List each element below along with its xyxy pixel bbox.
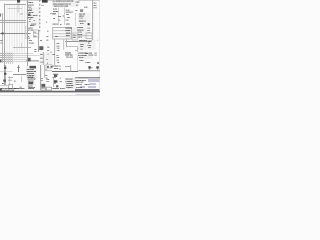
wire v x54.6 [51, 39, 59, 65]
svg-text:1.25B: 1.25B [88, 28, 91, 29]
svg-text:GOVERNOR: GOVERNOR [27, 73, 34, 74]
svg-text:LAMP RY: LAMP RY [28, 27, 33, 28]
svg-text:1.25R: 1.25R [57, 48, 60, 49]
svg-text:GLOW: GLOW [89, 52, 93, 53]
svg-text:J/C 01: J/C 01 [29, 40, 32, 41]
svg-text:B BR C R1: B BR C R1 [28, 80, 34, 81]
svg-text:No TB216-E1: No TB216-E1 [76, 87, 82, 88]
table grid v x17 [13, 3, 21, 63]
svg-text:0.85L: 0.85L [88, 30, 91, 31]
svg-text:0.5B: 0.5B [45, 75, 47, 76]
harness bus wire 3 [0, 54, 27, 62]
wire v x63.6 [60, 39, 68, 50]
svg-text:E07: E07 [88, 43, 90, 44]
relay K0 label block top-left [17, 0, 20, 3]
svg-text:J6: J6 [60, 77, 61, 78]
svg-text:STARTER: STARTER [77, 27, 83, 28]
wire code labels x52 low [51, 52, 60, 64]
node tick left y43 [0, 39, 2, 47]
svg-text:0.5RY: 0.5RY [88, 47, 91, 48]
border frame top [0, 0, 100, 5]
svg-text:1 2 3 4: 1 2 3 4 [80, 18, 83, 19]
feeder wire dark x39.8 [36, 0, 44, 31]
title block top edge [75, 74, 100, 82]
svg-text:BATTERY 12V: BATTERY 12V [53, 66, 61, 67]
wire h y41.6 right [65, 38, 91, 46]
border frame right edge [97, 0, 103, 93]
harness bus wire 4 [0, 56, 27, 64]
svg-text:0.85R: 0.85R [57, 57, 60, 58]
svg-text:J2: J2 [48, 54, 49, 55]
wash parts list [65, 78, 76, 89]
svg-text:0.85GW: 0.85GW [80, 44, 84, 45]
svg-text:0.5R: 0.5R [60, 81, 62, 82]
fuse box labels [66, 28, 76, 38]
battery labels [53, 66, 61, 75]
starter labels [77, 27, 83, 38]
wire h y71.6 left faint [0, 68, 13, 76]
svg-text:2.0R E12: 2.0R E12 [86, 62, 91, 63]
wire h y77.8 right [78, 74, 100, 82]
transistor blob Q1 [39, 46, 43, 50]
wire v x25.8 [22, 26, 30, 39]
svg-text:No.2: No.2 [95, 55, 97, 56]
svg-text:HORN SW: HORN SW [53, 23, 59, 24]
svg-text:0.85W: 0.85W [58, 16, 61, 17]
svg-text:1.25R: 1.25R [53, 14, 56, 15]
harness drop wire c [7, 53, 15, 65]
svg-text:R-12: R-12 [29, 19, 31, 20]
svg-text:AC SW 2P: AC SW 2P [28, 76, 33, 77]
svg-text:30 50 15: 30 50 15 [78, 34, 82, 35]
bullet drop A [86, 69, 94, 71]
wire segment [53, 32, 72, 40]
svg-text:H/L LO: H/L LO [80, 23, 84, 24]
svg-text:3 FUSE BOX: 3 FUSE BOX [66, 85, 73, 86]
terminal ladder wire v x4.5 [1, 4, 9, 87]
svg-text:T3: T3 [34, 20, 35, 21]
svg-text:0.5LW: 0.5LW [40, 58, 43, 59]
svg-text:B4: B4 [28, 36, 29, 37]
wire h y70.6 mid2 [45, 67, 53, 75]
svg-text:0.85B: 0.85B [57, 43, 60, 44]
wire segment [27, 14, 29, 22]
title block cell blue row3b [88, 86, 96, 88]
svg-text:0.5G: 0.5G [57, 62, 59, 63]
svg-text:0.5B: 0.5B [53, 18, 55, 19]
svg-text:GND E03: GND E03 [53, 11, 58, 12]
svg-text:ALT IG: ALT IG [78, 36, 81, 37]
svg-text:0.85R: 0.85R [67, 17, 70, 18]
svg-text:BATT RY: BATT RY [29, 12, 34, 13]
wash center column [27, 8, 41, 27]
node dot x51 y66.5 [51, 66, 53, 68]
svg-text:L6: L6 [29, 21, 30, 22]
gray band below title block [75, 94, 100, 96]
svg-text:0.85G: 0.85G [66, 14, 69, 15]
node dot x47.5 y66.5 [47, 66, 49, 68]
labels E05 E06 [40, 40, 49, 52]
wash mid cluster [40, 53, 53, 66]
node blob x28 y59 [28, 58, 31, 62]
wire segment [18, 64, 20, 72]
svg-text:AM 30: AM 30 [28, 6, 31, 7]
connector box CN4 [86, 33, 92, 39]
svg-text:E08: E08 [54, 81, 56, 82]
svg-text:E13: E13 [2, 83, 4, 84]
wire code labels mid [53, 14, 61, 25]
svg-text:IG2 ST: IG2 ST [29, 8, 32, 9]
wire v x64.5 top [61, 8, 69, 26]
svg-text:B=BLACK W=WHITE R=RED: B=BLACK W=WHITE R=RED [1, 90, 14, 91]
node dot right y62.5 [97, 62, 99, 64]
svg-text:GY: GY [41, 80, 43, 81]
small box x8.5-12.5 y84.5-88.5 [9, 85, 13, 89]
wire h y60.6 mid [26, 57, 39, 65]
svg-text:B1 ST 5: B1 ST 5 [53, 9, 57, 10]
wire segment [27, 10, 29, 18]
svg-text:E06: E06 [47, 40, 49, 41]
tick y69.8 [45, 66, 47, 74]
svg-text:No.1: No.1 [95, 52, 97, 53]
node junction dot y33.5 [2, 33, 4, 35]
svg-text:CN-1: CN-1 [94, 2, 97, 3]
svg-text:G 05: G 05 [20, 87, 22, 88]
svg-text:SAFETY RELAY: SAFETY RELAY [79, 40, 87, 41]
title block cell blue row2a [89, 83, 96, 85]
svg-text:0.5W: 0.5W [57, 60, 59, 61]
labels x46.5 bottom [47, 79, 50, 82]
wire h y47.5 [13, 44, 31, 52]
svg-text:0.85B 3: 0.85B 3 [80, 60, 84, 61]
node blob x55 y75.5 [54, 75, 57, 77]
connector C3 labels [29, 40, 37, 52]
table grid v x7 [3, 4, 11, 63]
node junction J4 [3, 80, 6, 82]
wire segment [27, 2, 29, 10]
alternator labels [78, 52, 97, 63]
safety relay labels [79, 40, 98, 50]
svg-text:B IG L E IC REG: B IG L E IC REG [78, 55, 86, 56]
node blob x30 y83 [28, 82, 33, 85]
svg-text:DATE 6.12: DATE 6.12 [85, 84, 90, 85]
governor title bar [30, 66, 37, 69]
svg-text:0.5W: 0.5W [28, 38, 30, 39]
node bullet dot A [88, 66, 90, 68]
wire v x21.5 low [18, 76, 26, 82]
speck row x8-12 y80 [8, 76, 12, 84]
svg-text:AC-2: AC-2 [76, 5, 78, 6]
svg-text:1.25L: 1.25L [46, 36, 49, 37]
wire v x44.6 lower [41, 65, 49, 78]
terminal ticks on x27.5 [27, 2, 29, 22]
wire v x18 upper [14, 3, 22, 13]
svg-text:DRAWN K.SATO: DRAWN K.SATO [76, 82, 84, 83]
stamp box 2 [47, 87, 52, 90]
stamp box 1 [41, 87, 46, 90]
table grid v x12 [8, 4, 16, 63]
title block dark band [75, 89, 100, 91]
svg-text:1.25WG: 1.25WG [88, 45, 92, 46]
svg-text:SLOW BLOW: SLOW BLOW [66, 12, 73, 13]
svg-text:ENGINE: ENGINE [65, 52, 71, 54]
title block cell blue row1a [88, 79, 100, 82]
table grid h y8.5 ext [13, 5, 22, 13]
node tick left y40.5 [0, 37, 2, 45]
governor block labels [27, 69, 36, 78]
svg-text:TAKEUCHI MFG CO: TAKEUCHI MFG CO [76, 80, 86, 81]
svg-text:0.5B 2P: 0.5B 2P [88, 40, 92, 41]
svg-text:F2: F2 [51, 52, 52, 53]
connector labels right edge [93, 2, 97, 8]
wire h y46.6 [67, 43, 78, 51]
svg-text:W2: W2 [60, 24, 62, 25]
starter switch labels [28, 76, 36, 88]
harness bus wire 2 [0, 52, 39, 60]
relay box K2 outline [53, 28, 72, 40]
svg-text:STARTER SW: STARTER SW [28, 78, 36, 79]
svg-text:0.85YR: 0.85YR [80, 46, 83, 47]
svg-text:BR=BROWN: BR=BROWN [53, 88, 60, 89]
wire h y66.6 x65 [65, 63, 71, 71]
svg-text:0.5Y: 0.5Y [47, 50, 49, 51]
node junction J3 [4, 73, 6, 75]
junction labels mid low [40, 54, 49, 64]
wire v main x27.5 [24, 0, 32, 66]
wire v x21.7 segment [18, 43, 26, 48]
wire h y35.6 right [75, 32, 93, 40]
harness drop wire b [5, 53, 13, 65]
bus fade overlay [13, 53, 39, 64]
svg-text:DIMMER SW: DIMMER SW [79, 20, 86, 21]
harness bus wire 1 [0, 50, 33, 58]
wire h top-left y4.5 [4, 1, 26, 9]
wire v x70.6 [67, 65, 75, 71]
svg-text:D4: D4 [47, 30, 48, 31]
svg-text:GLOW RY: GLOW RY [31, 23, 36, 24]
wash starter sw block [27, 76, 35, 89]
wire segment [34, 30, 39, 38]
component blob x43 y86 [41, 84, 45, 89]
svg-text:0.5GY: 0.5GY [41, 62, 44, 63]
connector C2 labels [28, 27, 36, 36]
wire code labels x66 [66, 14, 70, 24]
terminal ladder wire v x2.5 [0, 13, 7, 63]
border bottom main line [0, 91, 100, 93]
svg-text:E10: E10 [46, 77, 48, 78]
wire code column labels [57, 43, 60, 51]
svg-text:CN-2: CN-2 [94, 5, 97, 6]
svg-text:STOP SOL: STOP SOL [65, 54, 72, 56]
svg-text:5A 10A: 5A 10A [66, 35, 70, 36]
node dot x57 y86 [56, 85, 58, 87]
svg-text:B C R 2: B C R 2 [78, 32, 82, 33]
table grid v x22 [18, 4, 26, 63]
paper edge faint [0, 92, 100, 100]
box edge v x77.6 y47-52 [74, 47, 82, 52]
svg-text:Y=YELLOW: Y=YELLOW [28, 88, 34, 89]
speck x41.5 y5.5 [41, 2, 44, 10]
svg-text:WIRING DIAGRAM 12V DC 1/2: WIRING DIAGRAM 12V DC 1/2 [53, 3, 71, 4]
svg-text:4: 4 [97, 40, 98, 41]
bottom note text [0, 88, 65, 91]
table grid v x24.5 [21, 4, 29, 63]
speck x50.5 y13.5 [50, 10, 52, 18]
wire h y8.5 [8, 5, 23, 13]
wire segment [27, 0, 29, 6]
labels E08 E09 [54, 81, 56, 84]
node tick x20-23 y14 [20, 10, 23, 18]
wire h y20.5 [0, 17, 26, 25]
light switch block labels [79, 13, 86, 24]
svg-text:FUEL PUMP: FUEL PUMP [27, 69, 34, 70]
svg-text:M8 TERM: M8 TERM [28, 17, 33, 18]
wire v x53.6 bottom [50, 78, 58, 87]
wire v lower-left x5.2 [1, 65, 9, 86]
svg-text:FL 45A: FL 45A [66, 9, 70, 10]
svg-text:12V 40A: 12V 40A [79, 57, 83, 58]
svg-text:NOTE: WIRE COLOR CODE: NOTE: WIRE COLOR CODE [0, 88, 16, 89]
svg-text:30A: 30A [76, 10, 78, 11]
svg-text:ACC 12V: ACC 12V [33, 15, 38, 16]
node tick left edge y14 [0, 14, 1, 17]
svg-text:0.5RB: 0.5RB [40, 54, 43, 55]
svg-text:4 COVER A: 4 COVER A [66, 87, 73, 88]
svg-text:J4: J4 [47, 63, 48, 64]
wire h main y71.6 [52, 68, 78, 76]
harness drop wire a [3, 53, 11, 65]
svg-text:E05: E05 [40, 40, 42, 41]
svg-text:ST-SW 1: ST-SW 1 [28, 10, 33, 11]
svg-text:0.85L: 0.85L [52, 54, 55, 55]
svg-text:0.85Y: 0.85Y [34, 36, 37, 37]
svg-text:2P CONN: 2P CONN [29, 43, 34, 44]
labels right x87 y28 [88, 28, 91, 33]
title block cell blue row3a [80, 86, 86, 88]
svg-text:E1 R: E1 R [86, 53, 89, 54]
svg-text:10A 15A: 10A 15A [66, 30, 70, 31]
group wires [0, 0, 100, 96]
harness drop wire d [9, 53, 17, 65]
table grid v x9.5 [6, 4, 14, 63]
svg-text:FUSE BOX: FUSE BOX [66, 28, 72, 29]
svg-text:0.85L: 0.85L [34, 32, 37, 33]
wire v x9.5 low [6, 76, 14, 86]
bullet drop B [94, 69, 102, 71]
wire segment [73, 33, 75, 41]
svg-text:SHEET E-1 REV C 0.85B: SHEET E-1 REV C 0.85B [54, 6, 68, 7]
svg-text:OFF/ON 2: OFF/ON 2 [79, 16, 84, 17]
connector box CN3 narrow [72, 33, 77, 40]
svg-text:20A 30A: 20A 30A [66, 32, 70, 33]
node X mark [28, 14, 31, 17]
relay box K2 row 2 [53, 30, 72, 38]
svg-text:CABLE 15B: CABLE 15B [53, 74, 58, 75]
svg-text:0.5W: 0.5W [47, 81, 49, 82]
svg-text:E09: E09 [54, 83, 56, 84]
svg-text:0.5Y: 0.5Y [57, 55, 59, 56]
wire segment [27, 6, 29, 14]
wire h y70.8 right [78, 67, 100, 75]
svg-text:MOTOR SW: MOTOR SW [77, 29, 83, 30]
node dot right y24 [88, 23, 90, 25]
speck row x8-13 y77.5 [8, 74, 13, 82]
svg-text:2.0B: 2.0B [81, 49, 83, 50]
node bullet dot B [96, 66, 98, 68]
svg-text:B-6 W1: B-6 W1 [53, 77, 56, 78]
svg-text:GR=GRAY: GR=GRAY [60, 88, 65, 89]
connector box CN6 [46, 65, 52, 69]
harness bus wire 5 [0, 58, 39, 66]
left edge dark mark bottom [0, 89, 2, 91]
svg-text:(+): (+) [91, 67, 92, 68]
svg-text:0.5G: 0.5G [34, 49, 36, 50]
svg-text:15A 3W: 15A 3W [84, 6, 88, 7]
wash governor block [26, 66, 37, 79]
svg-text:PULL HOLD: PULL HOLD [66, 56, 73, 57]
svg-text:G=GREEN L=BLUE: G=GREEN L=BLUE [14, 88, 24, 89]
svg-text:WIPER: WIPER [66, 23, 70, 24]
svg-text:CONTROLLER: CONTROLLER [27, 71, 36, 73]
svg-text:LIGHT SW: LIGHT SW [79, 13, 85, 14]
svg-text:B 2150: B 2150 [76, 1, 80, 2]
svg-text:1.25G: 1.25G [57, 50, 60, 51]
wire v x77.5 low faint [74, 56, 82, 71]
blob x80-83 y9-12 [80, 9, 83, 12]
component box B1 [34, 30, 39, 37]
relay box K2 row 1 [53, 27, 72, 35]
wire segment [27, 18, 29, 26]
wash safety relay rows [78, 40, 96, 51]
table grid v x14.5 [11, 4, 19, 63]
wash light-sw cluster [78, 13, 91, 26]
wire v x75.5 upper [72, 13, 80, 26]
parts list labels [66, 79, 74, 89]
svg-text:C12 HARNESS ASSY MAIN 2150: C12 HARNESS ASSY MAIN 2150 [53, 1, 74, 3]
wire v x18.5 low [15, 65, 23, 72]
wire v x66.6 [63, 39, 71, 47]
wash fuse rows [65, 27, 78, 40]
svg-text:FUSE 20A: FUSE 20A [28, 5, 33, 6]
wire v right x92.6 [89, 0, 97, 40]
wire h y74.5 [13, 71, 26, 79]
wire segment [93, 4, 97, 11]
wash alternator rows [78, 52, 93, 59]
svg-text:PARTS LIST: PARTS LIST [66, 79, 73, 80]
svg-text:KEY 12V: KEY 12V [28, 85, 33, 86]
wash starter rows [77, 27, 88, 38]
engine stop solenoid labels [65, 52, 73, 58]
svg-text:W-2: W-2 [41, 78, 43, 79]
svg-text:80D26R: 80D26R [54, 68, 58, 69]
svg-text:A B C: A B C [55, 36, 58, 37]
wash header band [52, 0, 78, 7]
node blob x57 y86 [54, 80, 58, 83]
svg-text:R2 1.25B: R2 1.25B [28, 29, 33, 30]
wire segment [73, 31, 75, 39]
wire h long y33.5 [0, 30, 31, 38]
relay K1 label block [42, 0, 48, 3]
wire segment [88, 29, 91, 36]
switch SW1 labels [28, 10, 38, 26]
svg-text:1W: 1W [59, 69, 61, 70]
svg-text:CHECK T.ITO: CHECK T.ITO [76, 84, 82, 85]
svg-text:2 CLAMP 8: 2 CLAMP 8 [66, 83, 72, 84]
wire h y22.5 [0, 19, 26, 27]
svg-text:0.5R: 0.5R [34, 51, 36, 52]
svg-text:E04 BLK: E04 BLK [30, 25, 34, 26]
wire h y85.5 left [0, 82, 10, 90]
